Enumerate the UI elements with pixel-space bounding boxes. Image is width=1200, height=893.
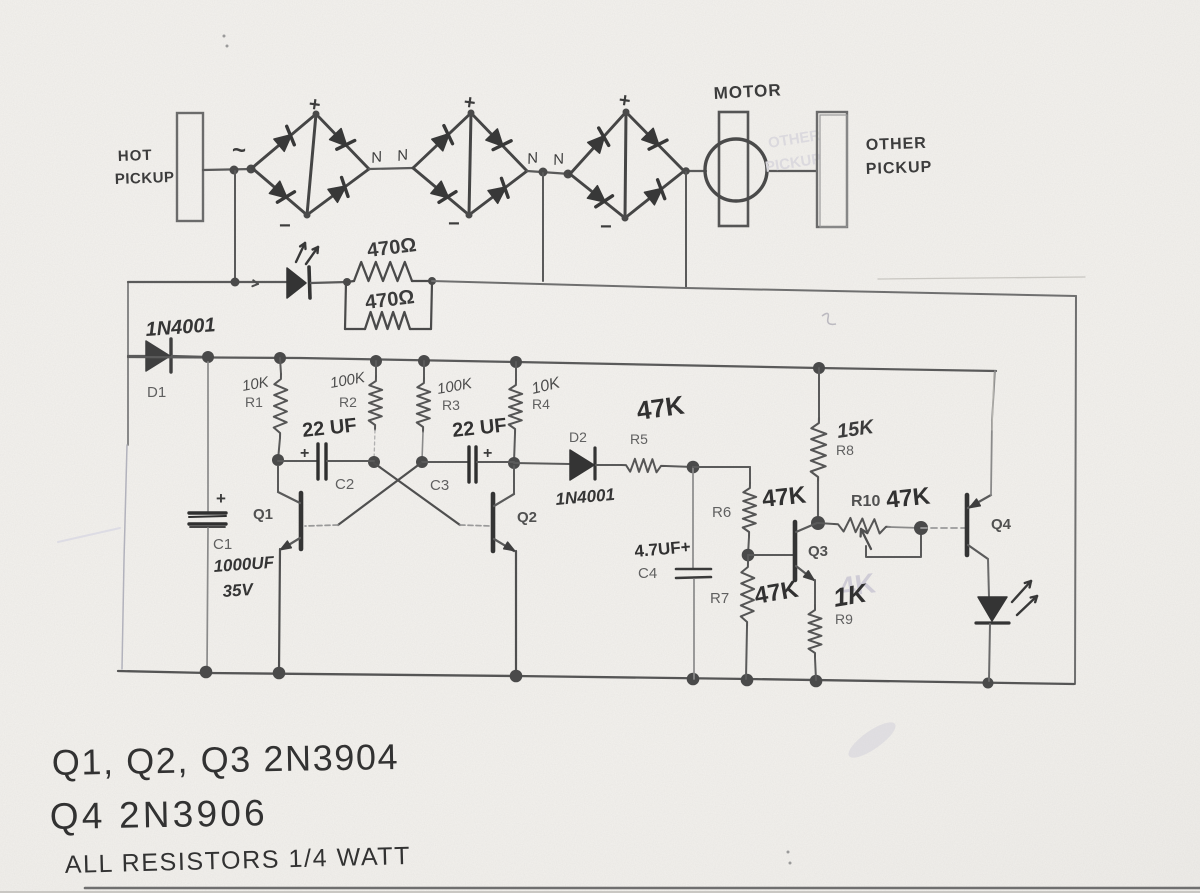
top rail node dots xyxy=(202,351,825,374)
wire top rail to Q4 emitter xyxy=(991,371,995,495)
capacitor C1 voltage label xyxy=(222,580,255,601)
transistor Q1 xyxy=(278,466,301,550)
resistor R1 value label xyxy=(241,373,271,395)
capacitor C4 ref label xyxy=(638,565,657,582)
resistor R8 xyxy=(811,368,827,523)
svg-text:Q3: Q3 xyxy=(808,543,828,560)
faint colon mark top xyxy=(223,35,229,48)
diode D2 xyxy=(514,448,595,480)
AC labels N between bridge2 and bridge3 xyxy=(526,149,566,169)
node Q3 base xyxy=(742,549,755,562)
svg-text:PICKUP: PICKUP xyxy=(115,169,175,188)
svg-text:+: + xyxy=(216,489,226,508)
svg-text:R3: R3 xyxy=(442,397,460,413)
capacitor C3 xyxy=(422,447,514,482)
transistor Q2 ref label xyxy=(517,509,537,526)
node R10 output xyxy=(914,521,928,535)
svg-text:+: + xyxy=(300,445,309,462)
resistor R10 potentiometer xyxy=(818,518,921,534)
node LED to 470 loop xyxy=(343,278,351,286)
svg-text:R7: R7 xyxy=(710,590,729,607)
resistor 470 bottom xyxy=(365,312,410,329)
transistor Q1 ref label xyxy=(253,506,273,523)
470 ohm parallel loop wires xyxy=(345,282,432,329)
wire bridge3 output down to LED row xyxy=(685,172,687,288)
node R5 output xyxy=(687,461,700,474)
node between bridge2 and bridge3 xyxy=(539,168,573,179)
svg-text:Q4: Q4 xyxy=(991,516,1012,533)
svg-text:R5: R5 xyxy=(630,431,648,447)
motor label xyxy=(713,80,782,103)
wire Q4 collector to LED xyxy=(988,559,989,597)
resistor R6 value label xyxy=(761,481,808,513)
svg-text:47K: 47K xyxy=(885,482,932,514)
transistor Q3 ref label xyxy=(808,543,828,560)
resistor 470 top xyxy=(347,262,432,282)
hot pickup label xyxy=(115,147,175,188)
LED L1 light arrows xyxy=(296,243,318,264)
resistor R4 value label xyxy=(530,374,563,398)
svg-text:~: ~ xyxy=(232,137,246,164)
diode D2 value label 1N4001 xyxy=(555,485,616,509)
diode bridge 1 xyxy=(252,93,369,237)
diode bridge 2 xyxy=(413,91,527,235)
wire R10 to Q4 base xyxy=(921,527,965,529)
wire Q3 emitter to R9 xyxy=(814,580,816,605)
resistor R2 xyxy=(369,361,383,461)
transistor list line 1 xyxy=(51,736,399,783)
resistor R6 xyxy=(743,467,757,555)
svg-text:D2: D2 xyxy=(569,429,587,445)
svg-text:−: − xyxy=(600,216,612,238)
erased ghost text other pickup xyxy=(764,127,823,176)
resistor note line xyxy=(64,842,411,879)
resistor R4 xyxy=(509,362,523,462)
capacitor C4 value label xyxy=(634,537,692,561)
capacitor C1 ref label xyxy=(213,536,232,553)
resistor R3 ref label xyxy=(442,397,460,413)
wire motor to other pickup xyxy=(767,170,817,172)
diode D1 xyxy=(128,339,208,372)
wire bridge2/3 node down to LED row xyxy=(542,173,544,281)
resistor R4 ref label xyxy=(532,396,550,412)
wire bridge1 to bridge2 xyxy=(369,168,413,169)
other pickup label xyxy=(866,135,933,178)
R10 wiper loop wire xyxy=(866,528,921,557)
svg-text:Q1, Q2, Q3 2N3904: Q1, Q2, Q3 2N3904 xyxy=(51,736,399,783)
svg-text:C2: C2 xyxy=(335,476,354,493)
capacitor C3 ref label xyxy=(430,477,449,494)
resistor R5 xyxy=(596,459,693,473)
capacitor C1 value label xyxy=(213,553,275,576)
svg-text:R6: R6 xyxy=(712,504,731,521)
resistor R8 value label xyxy=(836,416,877,443)
transistor Q3 xyxy=(795,522,817,580)
wire bridge2 to bridge3 xyxy=(527,171,570,174)
motor body circle xyxy=(705,139,767,201)
svg-text:Q4 2N3906: Q4 2N3906 xyxy=(49,792,268,837)
capacitor C1 plus xyxy=(216,489,226,508)
wire R6/R7 node to Q3 base xyxy=(748,554,793,556)
node at bridge 1 AC input xyxy=(230,165,256,175)
svg-text:R9: R9 xyxy=(835,611,853,627)
motor frame xyxy=(719,112,748,226)
node after 470 loop xyxy=(428,277,436,285)
resistor R7 value label xyxy=(752,576,801,610)
svg-text:−: − xyxy=(279,215,291,237)
capacitor C2 value label xyxy=(301,414,357,442)
faint smudge xyxy=(844,717,900,764)
svg-text:35V: 35V xyxy=(222,580,255,601)
wire LED to bottom rail xyxy=(989,624,990,681)
capacitor C3 plus xyxy=(483,445,492,462)
wire LED row right segment xyxy=(432,277,1085,296)
faint squiggle near rail xyxy=(822,313,836,324)
resistor R10 value label xyxy=(885,482,932,514)
wire Q1 emitter to bottom rail xyxy=(279,549,280,672)
capacitor C1 xyxy=(189,362,226,672)
capacitor C2 ref label xyxy=(335,476,354,493)
other pickup element xyxy=(817,112,847,227)
faint colon mark bottom xyxy=(787,851,792,865)
resistor R1 xyxy=(274,358,288,460)
resistor R3 value label xyxy=(436,375,474,398)
svg-text:Q1: Q1 xyxy=(253,506,273,523)
resistor R9 value label xyxy=(831,577,871,613)
svg-text:C3: C3 xyxy=(430,477,449,494)
transistor Q4 ref label xyxy=(991,516,1012,533)
capacitor C3 value label xyxy=(451,414,507,442)
diode bridge 3 xyxy=(570,89,684,238)
wire bridge1 input down to LED row xyxy=(234,171,236,282)
svg-text:−: − xyxy=(448,213,460,235)
hot pickup element xyxy=(177,113,203,221)
capacitor C2 plus xyxy=(300,445,309,462)
svg-text:C1: C1 xyxy=(213,536,232,553)
resistor R5 ref label xyxy=(630,431,648,447)
wire hot pickup to bridge 1 xyxy=(203,169,252,170)
svg-text:Q2: Q2 xyxy=(517,509,537,526)
svg-text:OTHER: OTHER xyxy=(866,135,928,154)
node row under resistors xyxy=(272,454,520,469)
resistor R1 ref label xyxy=(245,394,263,410)
bottom rail node dots xyxy=(200,666,994,689)
AC labels N between bridge1 and bridge2 xyxy=(370,146,410,167)
diode D2 ref label xyxy=(569,429,587,445)
diode D1 label 1N4001 xyxy=(145,314,216,341)
resistor R9 xyxy=(809,605,822,680)
LED L2 xyxy=(976,597,1009,623)
svg-text:PICKUP: PICKUP xyxy=(866,159,933,178)
svg-text:MOTOR: MOTOR xyxy=(713,80,782,103)
resistor R9 ghost value xyxy=(838,567,878,603)
resistor R5 value label xyxy=(635,390,687,426)
wire node to R6 xyxy=(693,466,750,468)
wire LED row left segment xyxy=(128,278,287,287)
R10 wiper arrow xyxy=(861,529,871,549)
AC label N at bridge 1 left xyxy=(232,137,246,164)
scan edge bottom xyxy=(0,888,1200,892)
wire Q2 emitter to bottom rail xyxy=(515,551,517,676)
resistor 470 top value label xyxy=(366,234,418,262)
resistor R2 ref label xyxy=(339,394,357,410)
svg-text:R4: R4 xyxy=(532,396,550,412)
svg-text:R10: R10 xyxy=(851,493,880,510)
wire bridge3 to motor xyxy=(682,167,706,175)
diode D1 ref label xyxy=(147,384,166,401)
svg-text:D1: D1 xyxy=(147,384,166,401)
svg-text:R1: R1 xyxy=(245,394,263,410)
resistor R7 ref label xyxy=(710,590,729,607)
LED L1 xyxy=(287,267,347,298)
svg-text:R8: R8 xyxy=(836,442,854,458)
transistor Q2 xyxy=(493,466,514,551)
cross wire C3 node to Q1 base xyxy=(305,463,421,526)
resistor R3 xyxy=(417,361,431,461)
transistor Q4 xyxy=(967,495,991,559)
capacitor C4 xyxy=(676,467,711,679)
main top rail xyxy=(128,357,996,371)
resistor R6 ref label xyxy=(712,504,731,521)
resistor R7 xyxy=(741,555,755,679)
outer loop left wire xyxy=(58,283,128,669)
svg-text:C4: C4 xyxy=(638,565,657,582)
capacitor C2 xyxy=(278,444,374,479)
bottom rail xyxy=(118,671,1074,684)
resistor R9 ref label xyxy=(835,611,853,627)
node Q3 collector xyxy=(811,516,825,530)
outer loop right wire xyxy=(1075,296,1076,684)
current arrow on wire xyxy=(252,280,258,286)
resistor R8 ref label xyxy=(836,442,854,458)
transistor list line 2 xyxy=(49,792,268,837)
svg-text:HOT: HOT xyxy=(118,147,153,165)
svg-text:47K: 47K xyxy=(761,481,808,513)
resistor R2 value label xyxy=(329,369,367,392)
resistor 470 bottom value label xyxy=(364,286,416,314)
svg-text:+: + xyxy=(483,445,492,462)
svg-text:R2: R2 xyxy=(339,394,357,410)
LED L2 light arrows xyxy=(1012,581,1037,615)
resistor R10 ref label xyxy=(851,493,880,510)
cross wire C2 node to Q2 base xyxy=(374,463,491,526)
